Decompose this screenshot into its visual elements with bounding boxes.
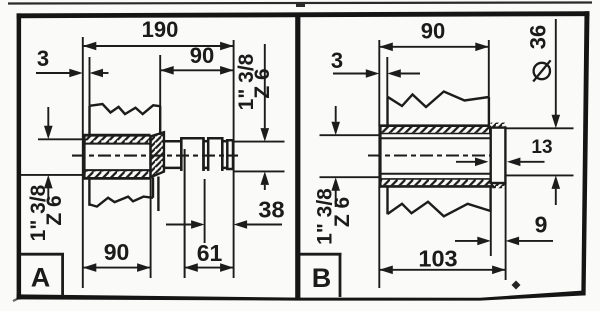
svg-text:A: A: [31, 263, 51, 293]
svg-text:61: 61: [197, 240, 223, 266]
svg-text:Z 6: Z 6: [43, 195, 66, 225]
svg-text:90: 90: [190, 43, 214, 68]
svg-text:9: 9: [535, 211, 548, 237]
svg-text:190: 190: [142, 17, 179, 42]
svg-text:Z 6: Z 6: [251, 68, 274, 98]
svg-text:103: 103: [418, 246, 457, 272]
svg-text:38: 38: [258, 197, 284, 223]
svg-text:90: 90: [104, 239, 130, 265]
svg-text:13: 13: [531, 137, 552, 158]
svg-text:3: 3: [331, 48, 343, 73]
svg-text:90: 90: [421, 18, 445, 43]
svg-text:Z 6: Z 6: [331, 197, 354, 227]
svg-text:36: 36: [525, 25, 550, 49]
svg-text:3: 3: [37, 46, 49, 71]
svg-text:B: B: [312, 263, 332, 293]
